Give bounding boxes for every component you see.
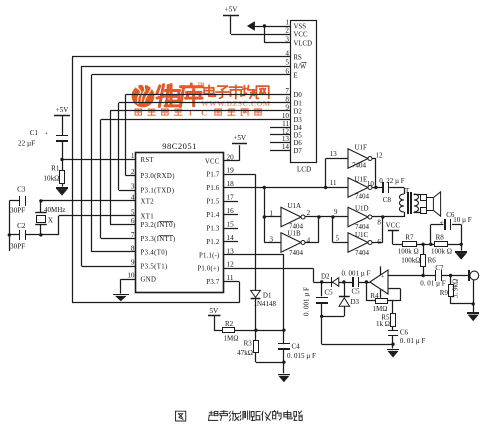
- svg-text:D3: D3: [351, 298, 360, 306]
- svg-text:D2: D2: [294, 108, 303, 115]
- svg-text:100k Ω: 100k Ω: [431, 248, 452, 256]
- svg-text:P1.7: P1.7: [206, 172, 219, 179]
- svg-text:100kΩ: 100kΩ: [401, 256, 420, 264]
- svg-text:+: +: [440, 219, 444, 227]
- svg-text:C4: C4: [292, 342, 301, 350]
- svg-text:P3.5(T1): P3.5(T1): [141, 263, 168, 270]
- svg-text:P3.4(T0): P3.4(T0): [141, 249, 168, 256]
- svg-text:9: 9: [131, 258, 135, 266]
- svg-text:P1.3: P1.3: [206, 225, 219, 232]
- svg-text:5: 5: [131, 208, 135, 216]
- svg-text:P3.7: P3.7: [206, 279, 219, 286]
- svg-text:P3.0(RXD): P3.0(RXD): [141, 173, 175, 180]
- svg-text:30PF: 30PF: [10, 207, 25, 215]
- svg-text:0. 001 µ F: 0. 001 µ F: [342, 269, 371, 277]
- svg-text:7404: 7404: [352, 162, 367, 170]
- svg-text:C3: C3: [17, 186, 26, 194]
- svg-text:VCC: VCC: [386, 221, 401, 229]
- svg-text:U1C: U1C: [355, 231, 369, 239]
- svg-text:+: +: [381, 273, 385, 280]
- svg-text:0. 01 µ F: 0. 01 µ F: [420, 280, 446, 288]
- svg-text:P1.2: P1.2: [206, 239, 219, 246]
- svg-text:P3.2(INT0): P3.2(INT0): [141, 222, 176, 229]
- svg-text:7404: 7404: [355, 223, 370, 231]
- svg-text:3. 9kΩ: 3. 9kΩ: [452, 279, 460, 298]
- svg-text:4: 4: [307, 236, 311, 244]
- svg-text:R3: R3: [244, 339, 253, 347]
- svg-text:D6: D6: [294, 140, 303, 147]
- svg-text:100k Ω: 100k Ω: [398, 248, 419, 256]
- svg-text:T: T: [405, 187, 410, 195]
- svg-text:VSS: VSS: [294, 23, 307, 30]
- svg-text:0. 001 µ F: 0. 001 µ F: [303, 287, 311, 316]
- svg-text:7: 7: [285, 87, 289, 95]
- svg-text:C7: C7: [435, 264, 444, 272]
- svg-text:10: 10: [282, 112, 290, 120]
- svg-text:X: X: [48, 217, 54, 225]
- svg-text:3: 3: [270, 236, 274, 244]
- svg-text:9: 9: [334, 208, 338, 216]
- svg-text:D1: D1: [263, 292, 272, 300]
- svg-text:P1.1(-): P1.1(-): [199, 252, 219, 259]
- svg-text:C2: C2: [17, 222, 26, 230]
- svg-text:2: 2: [285, 26, 289, 34]
- svg-text:C8: C8: [383, 196, 392, 204]
- svg-text:P3.3(INT1): P3.3(INT1): [141, 236, 176, 243]
- svg-text:3: 3: [285, 35, 289, 43]
- svg-text:1: 1: [131, 152, 135, 160]
- svg-text:0. 015 µ F: 0. 015 µ F: [287, 352, 316, 360]
- svg-text:6: 6: [285, 67, 289, 75]
- svg-text:14: 14: [227, 234, 235, 242]
- svg-text:R9: R9: [440, 289, 449, 297]
- svg-text:11: 11: [330, 179, 337, 187]
- svg-text:98C2051: 98C2051: [162, 141, 197, 151]
- svg-text:D0: D0: [294, 92, 303, 99]
- svg-text:16: 16: [227, 207, 235, 215]
- svg-text:C5: C5: [325, 288, 334, 296]
- svg-text:1: 1: [285, 18, 289, 26]
- svg-text:E: E: [294, 72, 298, 79]
- svg-text:7404: 7404: [355, 192, 370, 200]
- svg-text:10: 10: [367, 180, 375, 188]
- svg-text:R/W: R/W: [294, 63, 307, 70]
- svg-text:TM: TM: [198, 82, 205, 87]
- svg-text:1N4148: 1N4148: [254, 300, 277, 308]
- svg-text:40MHz: 40MHz: [44, 206, 65, 214]
- svg-text:D1: D1: [294, 100, 302, 107]
- svg-text:4: 4: [285, 49, 289, 57]
- svg-text:U1B: U1B: [288, 230, 302, 238]
- svg-text:P3.1(TXD): P3.1(TXD): [141, 187, 175, 194]
- svg-text:D4: D4: [294, 125, 303, 132]
- svg-text:VCC: VCC: [294, 31, 308, 38]
- svg-text:47kΩ: 47kΩ: [237, 349, 253, 357]
- svg-text:5: 5: [285, 58, 289, 66]
- svg-text:2: 2: [131, 168, 135, 176]
- svg-text:2: 2: [307, 209, 311, 217]
- svg-text:U1F: U1F: [355, 143, 368, 151]
- svg-text:11: 11: [227, 274, 234, 282]
- svg-text:8: 8: [377, 218, 381, 226]
- svg-text:10: 10: [127, 272, 135, 280]
- svg-text:10 µ F: 10 µ F: [453, 216, 472, 224]
- svg-text:+5V: +5V: [225, 5, 239, 13]
- svg-text:15: 15: [227, 220, 235, 228]
- svg-text:1: 1: [270, 210, 274, 218]
- svg-text:14: 14: [282, 143, 290, 151]
- svg-text:+5V: +5V: [233, 134, 247, 142]
- svg-text:XT2: XT2: [141, 198, 155, 205]
- svg-text:C1: C1: [30, 129, 39, 137]
- svg-text:U1E: U1E: [355, 175, 368, 183]
- svg-text:5: 5: [336, 234, 340, 242]
- svg-text:18: 18: [227, 180, 235, 188]
- svg-text:7404: 7404: [355, 249, 370, 257]
- svg-text:10kΩ: 10kΩ: [43, 175, 59, 183]
- svg-text:7: 7: [131, 231, 135, 239]
- svg-text:VCC: VCC: [205, 158, 220, 165]
- svg-text:RS: RS: [294, 54, 303, 61]
- svg-text:XT1: XT1: [141, 213, 155, 220]
- svg-text:6: 6: [377, 238, 381, 246]
- svg-text:GND: GND: [141, 277, 157, 284]
- svg-text:+5V: +5V: [56, 106, 70, 114]
- svg-text:3: 3: [131, 182, 135, 190]
- svg-text:P1.0(+): P1.0(+): [197, 266, 219, 273]
- svg-text:8: 8: [285, 95, 289, 103]
- svg-text:R4: R4: [370, 292, 379, 300]
- svg-text:6: 6: [131, 217, 135, 225]
- svg-text:WWW.DZSC.COM: WWW.DZSC.COM: [201, 99, 271, 108]
- svg-text:R8: R8: [436, 233, 445, 241]
- svg-text:13: 13: [282, 135, 290, 143]
- svg-text:P1.4: P1.4: [206, 212, 219, 219]
- svg-text:19: 19: [227, 167, 235, 175]
- svg-text:P1.5: P1.5: [206, 199, 219, 206]
- svg-text:RST: RST: [141, 157, 155, 164]
- svg-text:1k Ω: 1k Ω: [376, 320, 390, 328]
- svg-text:12: 12: [376, 152, 384, 160]
- svg-text:20: 20: [227, 153, 235, 161]
- svg-text:7404: 7404: [289, 249, 304, 257]
- svg-text:22 µF: 22 µF: [18, 140, 35, 148]
- svg-text:C5: C5: [352, 287, 361, 295]
- svg-text:VLCD: VLCD: [294, 40, 313, 47]
- svg-text:0. 01 µ F: 0. 01 µ F: [400, 337, 426, 345]
- svg-text:0. 22 µ F: 0. 22 µ F: [379, 177, 405, 185]
- svg-text:17: 17: [227, 194, 235, 202]
- svg-text:LCD: LCD: [297, 166, 311, 174]
- svg-text:U1A: U1A: [288, 202, 302, 210]
- svg-text:13: 13: [330, 150, 338, 158]
- svg-text:D3: D3: [294, 117, 303, 124]
- svg-text:8: 8: [131, 244, 135, 252]
- svg-text:12: 12: [227, 261, 235, 269]
- svg-text:D7: D7: [294, 148, 303, 155]
- svg-text:13: 13: [227, 247, 235, 255]
- svg-text:R7: R7: [405, 233, 414, 241]
- svg-text:4: 4: [131, 193, 135, 201]
- svg-text:1MΩ: 1MΩ: [373, 305, 388, 313]
- svg-text:30PF: 30PF: [10, 243, 25, 251]
- svg-text:P1.6: P1.6: [206, 185, 219, 192]
- svg-text:5V: 5V: [209, 307, 219, 315]
- svg-text:R2: R2: [225, 320, 234, 328]
- svg-text:C6: C6: [400, 329, 409, 337]
- svg-text:C: C: [201, 107, 207, 117]
- svg-text:D2: D2: [321, 272, 330, 280]
- svg-text:9: 9: [285, 103, 289, 111]
- svg-text:U1D: U1D: [355, 204, 369, 212]
- svg-text:R1: R1: [51, 165, 60, 173]
- svg-text:1MΩ: 1MΩ: [224, 335, 239, 343]
- svg-text:D5: D5: [294, 132, 303, 139]
